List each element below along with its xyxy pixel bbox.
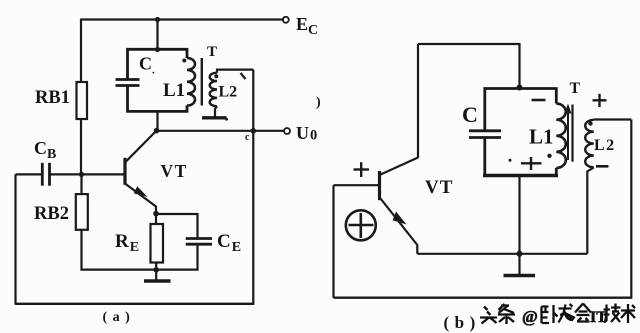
- ground symbol under RE: [155, 270, 157, 280]
- polarity dot L2 (a): [214, 74, 218, 78]
- wire base left segment: [16, 173, 43, 175]
- polarity dot L1 (b): [547, 154, 551, 158]
- wire rail to tank top: [156, 20, 158, 50]
- capacitor CB plates: [42, 163, 49, 186]
- transistor VT base bar (b): [378, 171, 381, 200]
- plus sign tank bottom (b): [521, 157, 542, 170]
- resistor RE: [151, 224, 164, 263]
- wire left vertical (b): [417, 44, 419, 158]
- wire collector node to U0 terminal: [157, 130, 285, 132]
- minus sign tank top (b): [532, 99, 546, 102]
- node bottom rail junction (b): [517, 251, 523, 257]
- wire CE bottom leg: [156, 244, 197, 269]
- small dot artifact (b): [509, 159, 512, 162]
- node emitter junction: [153, 211, 159, 217]
- transformer core (a): [201, 58, 203, 106]
- terminal U0 circle: [284, 128, 290, 134]
- node base junction: [79, 172, 84, 177]
- resistor RB1: [77, 82, 88, 119]
- wire L2 bottom leg (b): [587, 167, 594, 253]
- transformer arrow (b): [567, 111, 569, 160]
- capacitor C plates (b): [469, 131, 501, 138]
- wire L2 top to right edge: [217, 70, 253, 73]
- ground bar under L2 (a): [202, 116, 227, 119]
- current source circle (b): [346, 210, 376, 240]
- wire top supply rail: [81, 18, 284, 20]
- node U0 tap junction: [251, 128, 257, 134]
- wire base (b): [334, 184, 379, 186]
- ground symbol (b): [518, 254, 520, 274]
- inductor L2 coil (a): [210, 73, 217, 107]
- wire outer loop right edge (b): [630, 120, 632, 299]
- wire outer loop bottom (a): [16, 303, 255, 305]
- emitter arrowhead (a): [134, 186, 148, 197]
- wire L2 top to right edge (b): [594, 118, 632, 120]
- wire outer loop left edge (a): [14, 174, 16, 304]
- transistor VT collector line (a): [125, 131, 157, 163]
- wire tank bottom to collector node: [156, 111, 158, 130]
- inductor L1 coil (a): [187, 58, 195, 106]
- transistor VT base bar (a): [123, 158, 126, 185]
- current source plus (b): [349, 213, 374, 238]
- emitter arrowhead (b): [393, 212, 407, 225]
- dot artifact L2 box left: [225, 118, 228, 121]
- resistor RB2: [76, 194, 88, 230]
- node tank top junction: [155, 47, 160, 52]
- wire emitter to RE: [155, 214, 157, 224]
- plus sign L2 top (b): [593, 94, 607, 107]
- wire base node to RB2 top: [80, 174, 82, 194]
- polarity dot L2 (b): [588, 121, 592, 125]
- transistor VT emitter line with arrow (a): [125, 184, 156, 214]
- wire tank bottom to ground rail (b): [518, 176, 520, 254]
- wire RB1 column top: [80, 19, 82, 83]
- wire RB2 bottom to RE bottom: [82, 230, 157, 270]
- wire RE bottom: [155, 263, 157, 271]
- wire right feedback edge (a): [252, 70, 254, 304]
- tank loop rectangle (b): [485, 89, 557, 176]
- polarity dot L1 (a): [182, 59, 186, 63]
- node collector junction: [154, 128, 160, 134]
- wire L2 bottom stub: [215, 106, 217, 117]
- node RE bottom junction: [153, 267, 159, 273]
- node top rail junction: [155, 17, 160, 22]
- capacitor CE plates: [186, 239, 212, 245]
- transistor VT collector line (b): [381, 158, 419, 175]
- inductor L1 coil (b): [556, 104, 566, 168]
- inductor L2 coil (b): [585, 120, 594, 168]
- wire CB to base bar: [50, 173, 125, 175]
- node tank top junction (b): [517, 85, 523, 91]
- terminal EC circle: [283, 17, 289, 23]
- tank bottom thick edge (b): [483, 174, 558, 177]
- wire top rail (b): [418, 43, 521, 45]
- transformer core line (b): [571, 105, 573, 162]
- transistor VT emitter line with arrow (b): [381, 199, 418, 254]
- plus sign at base (b): [354, 162, 370, 177]
- wire outer loop bottom edge (b): [334, 297, 632, 299]
- wire RB1 to base node: [80, 119, 82, 174]
- wire emitter node to CE top: [156, 214, 198, 238]
- wire outer loop left edge (b): [332, 185, 334, 298]
- wire emitter/ground bottom rail (b): [417, 253, 587, 255]
- minus sign L2 bottom (b): [596, 165, 609, 168]
- capacitor C plates (a): [116, 80, 140, 86]
- wire rail down to tank (b): [518, 44, 520, 87]
- tick mark artifact: [241, 73, 246, 79]
- tank loop rectangle (a): top, left above C, left below C, bottom: [128, 49, 188, 111]
